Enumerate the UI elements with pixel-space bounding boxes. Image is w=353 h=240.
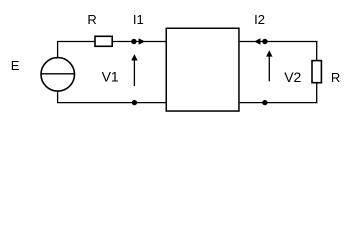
voltage arrow V2 (pointing up) — [268, 56, 270, 82]
node dot: top-right junction — [262, 39, 267, 44]
svg-text:I2: I2 — [254, 12, 265, 27]
wire: box right top to right corner — [240, 41, 318, 43]
current arrow I2 (pointing left) — [254, 38, 260, 44]
svg-text:V1: V1 — [102, 68, 119, 84]
wire: top-left from source to resistor R1 — [58, 42, 95, 57]
wire: right vertical top segment — [316, 41, 318, 61]
voltage source E (circle with horizontal bar) — [41, 58, 75, 92]
svg-text:V2: V2 — [284, 69, 301, 85]
svg-text:E: E — [11, 58, 20, 73]
node dot: bottom-right junction — [262, 100, 267, 105]
wire: right vertical bottom segment — [316, 83, 318, 104]
current arrow I1 (pointing right) — [139, 38, 145, 44]
resistor R2 (load, vertical) — [312, 61, 321, 83]
svg-text:R: R — [331, 70, 340, 85]
node dot: bottom-left junction — [132, 100, 137, 105]
svg-text:I1: I1 — [133, 12, 144, 27]
resistor R1 (series, horizontal) — [95, 36, 112, 46]
wire: bottom-right from box to right corner — [240, 102, 318, 104]
node dot: top-left junction — [131, 39, 136, 44]
wire: bottom-left from source to box — [57, 102, 166, 104]
voltage arrow V1 (pointing up) — [133, 60, 135, 87]
wire: resistor R1 to two-port box left top — [112, 41, 165, 43]
svg-text:R: R — [87, 12, 96, 27]
two-port network box — [166, 28, 239, 111]
wire: source bottom stub — [57, 91, 59, 102]
